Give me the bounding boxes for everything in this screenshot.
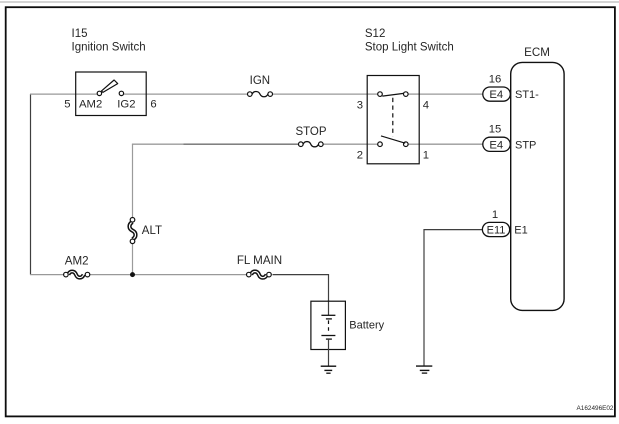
- connector E4 pin15: [483, 137, 511, 151]
- S12 mechanical link (dashed): [392, 98, 394, 137]
- svg-text:IG2: IG2: [117, 99, 135, 111]
- wire: row1 left vertical (AM2 feed): [30, 94, 32, 275]
- svg-text:3: 3: [357, 100, 363, 112]
- svg-text:5: 5: [64, 99, 70, 111]
- svg-text:15: 15: [489, 124, 502, 136]
- battery plate long top: [321, 314, 335, 316]
- S12 stop light switch box: [367, 76, 419, 164]
- battery B1 box: [311, 301, 346, 349]
- wire: row2 corner, light segment: [132, 143, 184, 145]
- wire: IGN fuse to S12 pin 3: [272, 93, 367, 95]
- wire: inside I15 from IG2 terminal: [124, 93, 146, 95]
- svg-text:Stop Light Switch: Stop Light Switch: [365, 41, 454, 53]
- svg-text:Battery: Battery: [349, 319, 384, 331]
- battery plate short top: [326, 318, 332, 320]
- wire: inside S12 pin2: [367, 143, 377, 145]
- fuse STOP: [299, 142, 324, 147]
- svg-text:16: 16: [489, 74, 502, 86]
- wire: FL MAIN to battery corner: [273, 275, 329, 302]
- wire: row2 dark segment to STOP fuse: [184, 143, 299, 145]
- wire: S12 pin 4 to ECM E4 ST1-: [419, 93, 483, 95]
- I15 terminal IG2: [119, 91, 123, 95]
- S12 pin 4 terminal: [404, 92, 409, 97]
- wire: ALT fuse bottom to junction: [132, 243, 134, 274]
- connector E4 pin16: [483, 87, 511, 101]
- svg-text:4: 4: [423, 100, 429, 112]
- S12 bottom lever: [381, 136, 405, 143]
- battery plate short bottom: [326, 338, 332, 340]
- svg-text:STP: STP: [515, 140, 536, 152]
- svg-text:1: 1: [423, 150, 429, 162]
- battery plate long bottom: [321, 335, 335, 337]
- svg-text:STOP: STOP: [295, 126, 326, 138]
- I15 terminal AM2: [97, 91, 101, 95]
- battery dashed cells: [328, 320, 330, 334]
- wire: STOP fuse to S12 pin 2: [323, 143, 368, 145]
- wire: inside S12 pin1: [408, 143, 419, 145]
- svg-text:E4: E4: [489, 140, 503, 152]
- svg-text:E4: E4: [489, 89, 503, 101]
- wire: S12 pin 1 to ECM E4 STP: [419, 143, 483, 145]
- wire: inside I15 to AM2 terminal: [76, 93, 97, 95]
- S12 top lever: [382, 93, 403, 96]
- ground (battery): [321, 366, 337, 373]
- junction dot: [130, 272, 135, 277]
- svg-text:Ignition Switch: Ignition Switch: [72, 41, 146, 53]
- svg-text:ALT: ALT: [142, 225, 162, 237]
- svg-text:AM2: AM2: [65, 254, 89, 267]
- ECM body: [511, 62, 564, 310]
- wire: row4 left corner to AM2 fuse: [30, 274, 64, 276]
- svg-text:ECM: ECM: [524, 46, 550, 59]
- svg-text:E11: E11: [487, 225, 506, 237]
- wire: row1 from left corner to I15 box: [30, 93, 76, 95]
- svg-text:2: 2: [357, 150, 363, 162]
- svg-text:S12: S12: [365, 28, 385, 40]
- battery to ground wire: [328, 339, 330, 366]
- svg-text:E1: E1: [514, 225, 527, 237]
- svg-text:ST1-: ST1-: [515, 89, 539, 101]
- fuse IGN: [248, 91, 273, 96]
- wire: inside S12 pin4: [408, 93, 419, 95]
- connector E11 pin1: [482, 222, 509, 236]
- I15 switch lever: [102, 80, 118, 92]
- I15 ignition switch box: [76, 72, 147, 116]
- svg-text:6: 6: [150, 99, 156, 111]
- svg-text:IGN: IGN: [250, 75, 270, 87]
- wire: ECM E1 to ground: [424, 230, 483, 366]
- wire: AM2 fuse to junction: [90, 274, 133, 276]
- S12 pin 2 terminal: [378, 142, 383, 147]
- svg-text:FL MAIN: FL MAIN: [237, 254, 282, 267]
- fusible link FL MAIN: [247, 272, 272, 278]
- svg-text:1: 1: [492, 209, 498, 221]
- wire: I15 to IGN fuse: [146, 93, 248, 95]
- S12 pin 3 terminal: [378, 92, 383, 97]
- svg-text:I15: I15: [72, 28, 88, 40]
- fuse AM2 (medium): [64, 272, 90, 278]
- wire: inside S12 pin3: [367, 93, 377, 95]
- wire: STOP branch vertical (row2 down to junction): [132, 144, 134, 218]
- svg-text:AM2: AM2: [79, 99, 102, 111]
- svg-text:A162496E02: A162496E02: [577, 405, 614, 412]
- wire: junction to FL MAIN: [133, 274, 247, 276]
- S12 pin 1 terminal: [404, 142, 409, 147]
- top separator line: [0, 1, 619, 3]
- battery feed wire into box: [328, 300, 330, 315]
- ground (E1): [416, 366, 432, 373]
- fusible link ALT (vertical): [130, 218, 136, 244]
